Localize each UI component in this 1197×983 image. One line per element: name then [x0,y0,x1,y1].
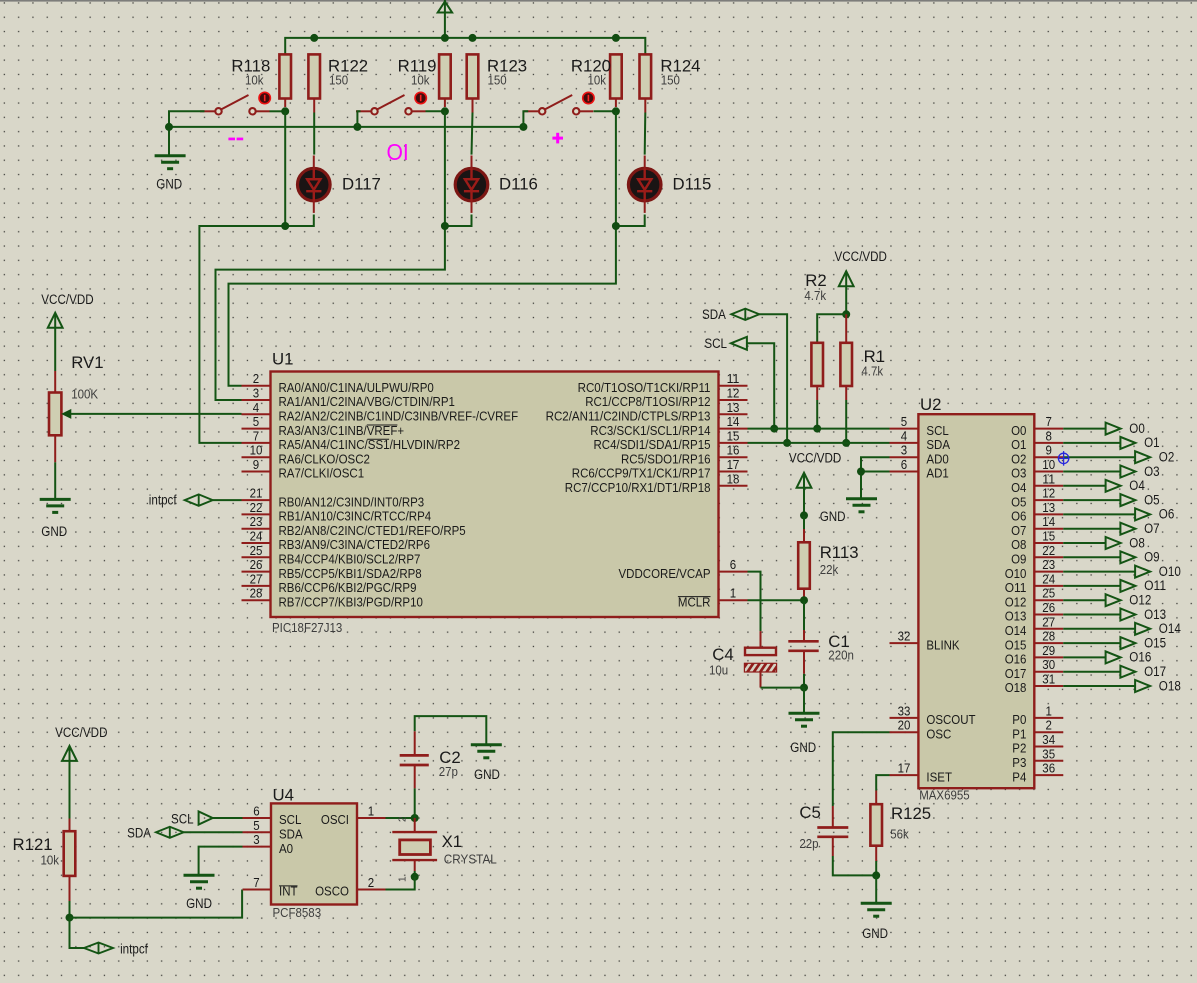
ground symbol bottom-right [861,902,892,905]
junction OSCO [411,873,419,881]
svg-text:O4: O4 [1129,478,1145,493]
resistor R122 [308,54,320,98]
svg-text:O12: O12 [1129,593,1151,608]
svg-text:10u: 10u [709,663,728,678]
wire INT net [70,890,243,918]
svg-text:15: 15 [727,428,740,443]
svg-text:X1: X1 [442,832,463,851]
svg-text:P1: P1 [1012,726,1026,741]
svg-text:SCL: SCL [279,812,301,827]
ground symbol AD0/AD1 [846,497,877,500]
wire switch2 left drop [357,111,360,127]
U1 pin 22 (RB1) [242,513,271,515]
terminal O5 [1063,499,1120,501]
resistor R121 [69,819,71,832]
svg-text:3: 3 [901,443,907,458]
wire SCL to SCL bus [747,343,774,428]
svg-text:O11: O11 [1005,580,1027,595]
U2 pin 20 (OSC) [890,731,919,733]
svg-text:21: 21 [250,486,263,501]
junction on VCC rail at R123 [469,34,477,42]
svg-text:VCC/VDD: VCC/VDD [55,725,108,740]
svg-text:28: 28 [1042,629,1055,644]
wire switch3 right to R120 node [594,110,616,112]
svg-text:6: 6 [901,457,907,472]
svg-text:4.7k: 4.7k [861,364,883,379]
svg-text:O7: O7 [1144,521,1160,536]
svg-text:GND: GND [41,524,67,539]
svg-text:ISET: ISET [926,769,952,784]
terminal O9 [1063,556,1120,558]
terminal O1 [1063,442,1120,444]
svg-text:RC4/SDI1/SDA1/RP15: RC4/SDI1/SDA1/RP15 [594,437,711,452]
terminal O0 [1063,428,1105,430]
junction SDA drop [783,439,791,447]
svg-text:OSC: OSC [926,726,951,741]
junction R1/SDA [842,439,850,447]
terminal SDA [731,309,759,320]
svg-text:RA2/AN2/C2INB/C1IND/C3INB/VREF: RA2/AN2/C2INB/C1IND/C3INB/VREF-/CVREF [279,409,519,424]
svg-text:6: 6 [730,557,736,572]
svg-text:10k: 10k [245,73,264,88]
svg-text:SCL: SCL [704,336,727,351]
svg-text:U4: U4 [273,786,294,805]
U4 pin 5 (SDA) [243,831,272,833]
U1 pin 28 (RB7) [242,599,271,601]
terminal SCL (U4) [199,812,213,825]
svg-text:O2: O2 [1159,450,1175,465]
svg-text:5: 5 [901,414,907,429]
terminal intpcf (bottom) [84,943,113,954]
terminal O17 [1063,671,1120,673]
svg-text:O10: O10 [1159,564,1181,579]
text annotation -- [228,138,235,141]
svg-text:AD0: AD0 [926,451,948,466]
svg-text:10k: 10k [411,73,430,88]
U1 pin 15 (RC4/SDI1/SDA1/RP15) [719,442,748,444]
U2 pin 30 (O17) [1034,671,1063,673]
svg-text:23: 23 [1042,557,1055,572]
terminal O4 [1063,485,1105,487]
svg-text:O6: O6 [1011,509,1026,524]
svg-text:D116: D116 [499,175,538,194]
svg-text:10: 10 [1042,457,1055,472]
svg-text:O6: O6 [1159,507,1175,522]
svg-text:O9: O9 [1144,550,1160,565]
wire U2 OSC to C5 [833,732,890,806]
U2 pin 24 (O11) [1034,585,1063,587]
junction GND rail switch2 drop [353,123,361,131]
svg-text:R121: R121 [13,835,53,854]
terminal O18 [1063,685,1135,687]
U4 pin 7 (INT) [243,889,272,891]
crystal X1 [414,818,416,832]
wire C2 to OSCI [414,788,416,818]
svg-text:6: 6 [253,804,259,819]
wire net D117 to U1 RA5 (pin7) [284,111,286,226]
svg-text:4: 4 [901,428,907,443]
svg-text:RB3/AN9/C3INA/CTED2/RP6: RB3/AN9/C3INA/CTED2/RP6 [279,537,431,552]
svg-text:OI: OI [387,139,409,165]
svg-text:RC6/CCP9/TX1/CK1/RP17: RC6/CCP9/TX1/CK1/RP17 [572,466,711,481]
svg-text:P4: P4 [1012,769,1026,784]
resistor R120 [610,54,622,98]
svg-text:34: 34 [1042,732,1055,747]
junction on VCC rail at R122 [310,34,318,42]
svg-text:22: 22 [250,500,263,515]
svg-text:RA0/AN0/C1INA/ULPWU/RP0: RA0/AN0/C1INA/ULPWU/RP0 [279,380,434,395]
svg-text:RC3/SCK1/SCL1/RP14: RC3/SCK1/SCL1/RP14 [590,423,710,438]
U4 pin 3 (A0) [243,846,272,848]
svg-text:3: 3 [253,386,259,401]
svg-text:2: 2 [1046,718,1052,733]
junction D116 node [441,222,449,230]
svg-text:23: 23 [250,514,263,529]
U2 pin 2 (P1) [1034,731,1063,733]
svg-text:O13: O13 [1144,607,1166,622]
svg-text:RV1: RV1 [71,353,103,372]
svg-text:SDA: SDA [127,826,151,841]
svg-text:PCF8583: PCF8583 [273,905,322,920]
svg-text:18: 18 [727,471,740,486]
svg-text:GND: GND [156,177,182,192]
svg-text:12: 12 [727,386,740,401]
U2 pin 7 (O0) [1034,428,1063,430]
U2 pin 28 (O15) [1034,642,1063,644]
junction R2/SCL [813,425,821,433]
wire switch1 right to R118 node [270,110,286,112]
svg-text:20: 20 [898,718,911,733]
svg-text:1: 1 [368,804,374,819]
U1 pin 21 (RB0) [242,499,271,501]
svg-text:26: 26 [250,557,263,572]
wire C5 to GND node [833,856,876,875]
wire X1 to OSCO [414,871,416,877]
svg-text:SCL: SCL [926,423,948,438]
svg-text:RC0/T1OSO/T1CKI/RP11: RC0/T1OSO/T1CKI/RP11 [578,380,711,395]
svg-text:100K: 100K [71,386,98,401]
svg-text:CRYSTAL: CRYSTAL [444,852,497,867]
wire to GND bottom-right [875,875,877,903]
U1 pin 25 (RB4) [242,556,271,558]
svg-text:150: 150 [661,73,680,88]
wire R113 to C1 [803,600,805,630]
wire SCL to U4 [213,817,243,819]
junction D117 node [281,222,289,230]
terminal O14 [1063,628,1135,630]
wire R124 to D115 [644,113,647,155]
svg-text:RB6/CCP6/KBI2/PGC/RP9: RB6/CCP6/KBI2/PGC/RP9 [279,580,417,595]
svg-text:R113: R113 [820,543,859,562]
junction C1/C4 GND node [800,684,808,692]
resistor R124 [640,54,652,98]
resistor R2 [811,343,823,386]
wire intpcf to U1 pin21 [213,499,242,501]
U2 pin 4 (SDA) [890,442,919,444]
resistor R1 [845,314,847,343]
svg-text:O12: O12 [1005,594,1027,609]
wire R123 to D116 [472,113,473,155]
svg-text:24: 24 [250,529,263,544]
U2 pin 6 (AD1) [890,471,919,473]
svg-text:22: 22 [1042,543,1055,558]
svg-text:VCC/VDD: VCC/VDD [835,249,888,264]
svg-text:P2: P2 [1012,741,1026,756]
svg-text:17: 17 [898,761,911,776]
junction R119/switch2 [441,107,449,115]
svg-text:O2: O2 [1011,451,1026,466]
wire SCL bus U1-U2 [748,428,890,430]
svg-text:O7: O7 [1011,523,1026,538]
svg-text:9: 9 [1046,443,1052,458]
U1 pin 26 (RB5) [242,571,271,573]
junction R121/intpcf [66,914,74,922]
U1 pin 6 (VDDCORE/VCAP) [719,571,748,573]
svg-text:36: 36 [1042,761,1055,776]
svg-text:RC2/AN11/C2IND/CTPLS/RP13: RC2/AN11/C2IND/CTPLS/RP13 [546,409,711,424]
svg-text:O9: O9 [1011,552,1026,567]
terminal SCL [731,337,747,350]
junction GND rail switch3 drop [519,123,527,131]
svg-text:35: 35 [1042,746,1055,761]
svg-text:U2: U2 [920,395,941,414]
U2 pin 36 (P4) [1034,774,1063,776]
svg-text:P3: P3 [1012,755,1026,770]
svg-text:O15: O15 [1005,637,1027,652]
wire GND node down [803,688,805,714]
LED D115 [628,168,661,201]
wire VCC to R113 [803,515,805,529]
U2 pin 25 (O12) [1034,599,1063,601]
U2 pin 35 (P3) [1034,760,1063,762]
svg-text:SDA: SDA [702,307,726,322]
svg-text:12: 12 [1042,486,1055,501]
svg-text:D115: D115 [673,175,712,194]
U2 pin 15 (O8) [1034,542,1063,544]
text annotation + [552,137,563,140]
U2 pin 11 (O4) [1034,485,1063,487]
svg-text:intpcf: intpcf [120,942,148,957]
svg-text:RB7/CCP7/KBI3/PGD/RP10: RB7/CCP7/KBI3/PGD/RP10 [279,594,423,609]
pushbutton switch 2 [356,110,371,112]
junction VCC/R113 [800,511,808,519]
svg-text:SDA: SDA [279,827,303,842]
wire AD0/AD1 to GND [861,457,890,471]
U2 pin 23 (O10) [1034,571,1063,573]
U2 pin 33 (OSCOUT) [890,717,919,719]
wire U2 ISET to R125 [876,775,889,790]
svg-text:10k: 10k [588,73,607,88]
U2 pin 34 (P2) [1034,746,1063,748]
wire A0 to GND [199,847,243,876]
svg-text:10k: 10k [41,853,60,868]
junction VCC R1/R2 [842,310,850,318]
svg-text:VCC/VDD: VCC/VDD [789,451,842,466]
junction OSCI [411,814,419,822]
svg-text:17: 17 [727,457,740,472]
IC U2 body [918,414,1034,788]
terminal O15 [1063,642,1120,644]
svg-text:22k: 22k [820,562,839,577]
wire SDA bus U1-U2 [748,442,890,444]
resistor R123 [467,54,479,98]
svg-text:14: 14 [727,414,740,429]
power terminal VCC/VDD top [438,2,452,13]
terminal O6 [1063,513,1135,515]
wire switch2 right to R119 node [426,110,445,112]
U1 pin 16 (RC5/SDO1/RP16) [719,456,748,458]
svg-text:OSCO: OSCO [315,884,349,899]
svg-text:intpcf: intpcf [149,493,177,508]
U2 pin 26 (O13) [1034,614,1063,616]
wire MCLR to R113/C1 [748,599,805,601]
svg-text:O13: O13 [1005,609,1027,624]
IC U1 body [271,372,719,618]
ground symbol C2 [471,743,502,746]
junction MCLR node [800,596,808,604]
svg-text:1: 1 [398,876,409,882]
svg-text:O0: O0 [1129,421,1145,436]
svg-text:2: 2 [368,875,374,890]
svg-text:SDA: SDA [926,437,950,452]
svg-text:RB2/AN8/C2INC/CTED1/REFO/RP5: RB2/AN8/C2INC/CTED1/REFO/RP5 [279,523,466,538]
svg-text:O17: O17 [1144,664,1166,679]
wire switch3 left drop [523,111,528,127]
ground symbol RV1 [40,498,71,501]
svg-text:2: 2 [398,816,409,822]
svg-text:16: 16 [727,443,740,458]
svg-text:PIC18F27J13: PIC18F27J13 [272,620,342,635]
svg-text:O10: O10 [1005,566,1027,581]
svg-text:27p: 27p [439,764,458,779]
svg-text:14: 14 [1042,514,1055,529]
svg-text:29: 29 [1042,643,1055,658]
ground symbol C1/C4 [789,712,820,715]
wire SDA to SDA bus [759,314,787,443]
svg-text:D117: D117 [342,175,381,194]
svg-text:RC7/CCP10/RX1/DT1/RP18: RC7/CCP10/RX1/DT1/RP18 [565,480,711,495]
terminal O16 [1063,656,1105,658]
wire OSCI node [386,817,415,819]
svg-text:3: 3 [253,832,259,847]
svg-text:22p: 22p [799,836,818,851]
U1 pin 9 (RA7) [242,471,271,473]
U2 pin 17 (ISET) [890,774,919,776]
U2 pin 3 (AD0) [890,456,919,458]
svg-text:28: 28 [250,586,263,601]
svg-text:13: 13 [727,400,740,415]
svg-text:O11: O11 [1144,578,1166,593]
ground symbol U4 A0 [184,874,215,877]
svg-text:5: 5 [253,818,259,833]
svg-text:O1: O1 [1144,435,1160,450]
svg-text:56k: 56k [890,827,909,842]
svg-text:5: 5 [253,414,259,429]
svg-text:220n: 220n [828,648,854,663]
U2 pin 8 (O1) [1034,442,1063,444]
U4 pin 2 (OSCO) [357,889,386,891]
resistor R113 [803,529,805,542]
wire SDA to U4 [184,831,243,833]
svg-text:O3: O3 [1011,466,1026,481]
svg-text:RB4/CCP4/KBI0/SCL2/RP7: RB4/CCP4/KBI0/SCL2/RP7 [279,552,421,567]
svg-text:150: 150 [488,73,507,88]
svg-text:25: 25 [250,543,263,558]
svg-text:O18: O18 [1005,680,1027,695]
svg-text:OSCOUT: OSCOUT [926,712,975,727]
svg-text:RB5/CCP5/KBI1/SDA2/RP8: RB5/CCP5/KBI1/SDA2/RP8 [279,566,422,581]
svg-text:O4: O4 [1011,480,1026,495]
svg-text:O17: O17 [1005,666,1027,681]
LED D117 [298,168,331,201]
pushbutton switch 3 [524,110,539,112]
svg-text:7: 7 [1046,414,1052,429]
ground symbol top-left [155,154,186,157]
mouse cursor artifact [1058,453,1068,463]
junction on VCC rail at R119 [441,34,449,42]
svg-text:VCC/VDD: VCC/VDD [41,292,94,307]
junction R120/switch3 [612,107,620,115]
wire R121 to INT net [69,901,71,918]
U1 pin 5 (RA3) [242,428,271,430]
svg-text:10: 10 [250,443,263,458]
svg-text:GND: GND [790,740,816,755]
svg-text:MAX6955: MAX6955 [919,788,970,803]
svg-text:O8: O8 [1129,535,1145,550]
svg-text:VDDCORE/VCAP: VDDCORE/VCAP [619,566,711,581]
U1 pin 13 (RC2/AN11/C2IND/CTPLS/RP13) [719,413,748,415]
svg-text:O16: O16 [1005,652,1027,667]
svg-text:GND: GND [862,926,888,941]
svg-text:AD1: AD1 [926,466,948,481]
svg-text:RB0/AN12/C3IND/INT0/RP3: RB0/AN12/C3IND/INT0/RP3 [279,494,425,509]
capacitor C4 (electrolytic) [760,631,762,648]
terminal O7 [1063,528,1120,530]
wire RV1 wiper to U1 RA2 (pin4) [71,413,242,415]
resistor R125 [875,791,877,805]
U1 pin 11 (RC0/T1OSO/T1CKI/RP11) [719,385,748,387]
wire OSCO net [386,877,415,890]
junction GND rail left [165,123,173,131]
svg-text:31: 31 [1042,672,1055,687]
svg-text:RA7/CLKI/OSC1: RA7/CLKI/OSC1 [279,466,365,481]
U1 pin 14 (RC3/SCK1/SCL1/RP14) [719,428,748,430]
terminal O3 [1063,471,1120,473]
U2 pin 31 (O18) [1034,685,1063,687]
U2 pin 13 (O6) [1034,513,1063,515]
junction D115 node [612,222,620,230]
U2 pin 1 (P0) [1034,717,1063,719]
svg-text:4.7k: 4.7k [804,288,826,303]
svg-text:O3: O3 [1144,464,1160,479]
U1 pin 24 (RB3) [242,542,271,544]
svg-text:8: 8 [1046,428,1052,443]
terminal intpcf (U1 RB0) [185,494,213,505]
svg-text:GND: GND [186,896,212,911]
capacitor C1 [788,640,818,643]
U2 pin 10 (O3) [1034,471,1063,473]
resistor R118 [279,54,291,98]
svg-text:11: 11 [727,371,740,386]
terminal O10 [1063,571,1135,573]
U2 pin 12 (O5) [1034,499,1063,501]
terminal O11 [1063,585,1120,587]
wire switch1 left to GND rail [169,111,205,155]
svg-text:11: 11 [1042,471,1055,486]
potentiometer RV1 [54,371,56,393]
svg-text:13: 13 [1042,500,1055,515]
U4 pin 1 (OSCI) [357,817,386,819]
